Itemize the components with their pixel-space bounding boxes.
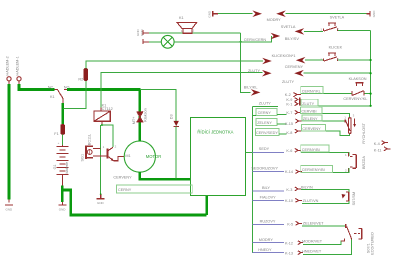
arrow out CERV/CERN	[271, 33, 281, 40]
switch S7 bracket	[358, 228, 361, 238]
pad P2	[17, 77, 21, 81]
svg-text:ZLUTY: ZLUTY	[248, 69, 260, 73]
arrow in MODRY	[276, 10, 286, 17]
svg-text:SG1: SG1	[81, 154, 85, 162]
svg-text:FIALOVY: FIALOVY	[260, 196, 277, 200]
label box CERV/BI	[301, 114, 350, 118]
svg-text:K-5: K-5	[287, 223, 293, 227]
battery bottom pin	[61, 177, 63, 186]
wire down to BILY/KL arrow	[241, 33, 251, 93]
emitter wire to motor	[113, 157, 124, 161]
pin bracket row1	[299, 98, 301, 106]
fuse F1	[61, 124, 65, 134]
row10 MODRY	[253, 242, 285, 244]
label box ZLUTY right	[301, 105, 371, 107]
svg-text:K-4: K-4	[374, 142, 380, 146]
svg-text:K1: K1	[179, 16, 184, 20]
svg-text:K-7: K-7	[286, 111, 292, 115]
svg-text:ZELENY: ZELENY	[303, 117, 318, 121]
svg-text:K-6: K-6	[286, 149, 292, 153]
gnd pin top right	[366, 11, 370, 16]
svg-text:ZLUTY: ZLUTY	[259, 102, 271, 106]
svg-text:S07/SM: S07/SM	[352, 192, 356, 206]
svg-text:CERV/CERN: CERV/CERN	[244, 38, 267, 42]
wire common to fuse F1	[61, 103, 64, 125]
buzzer SG1	[86, 145, 93, 158]
label box CERVENY right	[301, 131, 350, 136]
wire junction to transistor collector	[102, 125, 113, 147]
wire motor bottom to control unit	[140, 172, 191, 180]
svg-text:RUZOVY: RUZOVY	[260, 220, 276, 224]
gnd pin lamp	[143, 39, 149, 44]
pad P1 pin stub	[8, 81, 10, 84]
svg-text:CERV/BI: CERV/BI	[301, 109, 316, 113]
svg-text:CERNY/BI: CERNY/BI	[302, 148, 320, 152]
switch S7 lever	[347, 227, 352, 240]
svg-text:K-10: K-10	[285, 199, 293, 203]
svg-text:CERNY: CERNY	[258, 111, 272, 115]
svg-text:BILY/KL: BILY/KL	[244, 86, 258, 90]
switch S7 contact top	[345, 224, 347, 228]
label box CERNY bottom	[116, 185, 192, 193]
wire battery to ground	[61, 186, 64, 202]
wire lamp line	[149, 41, 162, 43]
junction relay-transistor	[101, 124, 103, 126]
control unit box	[190, 118, 245, 196]
svg-text:K-12: K-12	[285, 241, 293, 245]
svg-text:+: +	[58, 141, 60, 145]
arrow out BILY/KL	[251, 89, 261, 96]
wire SVETLA arrow to switch	[304, 30, 323, 32]
switch S4 RYCHLOST	[345, 118, 354, 134]
svg-text:BILY/SV: BILY/SV	[285, 37, 300, 41]
wire ZLUTY in to bus	[304, 72, 371, 74]
wire CERVENY arrow to KLICEK switch	[305, 59, 323, 61]
wire relay coil to ZLUTY net	[101, 73, 263, 108]
wire R2 top to KLICEK net	[86, 61, 263, 68]
svg-text:HADLEM-1: HADLEM-1	[16, 56, 20, 75]
switch S1 SVETLA	[323, 23, 337, 31]
switch S5 BRZDA	[348, 153, 356, 173]
svg-text:RYCHLOST: RYCHLOST	[362, 122, 366, 143]
wire thick to motor top	[139, 88, 142, 141]
svg-text:SEDY: SEDY	[259, 147, 270, 151]
svg-text:HNEDY: HNEDY	[258, 248, 272, 252]
svg-text:BILY: BILY	[262, 186, 270, 190]
row4 CERV/SEDY label box	[255, 128, 279, 135]
pin stub ground 3	[100, 194, 102, 198]
svg-text:D3: D3	[169, 114, 173, 119]
diode D3	[174, 121, 179, 126]
wire klicek switch to bus	[338, 59, 370, 61]
wire junction to ground GND3	[100, 125, 102, 194]
switch S2 KLICEK	[323, 53, 337, 61]
svg-text:CERV/SEDY: CERV/SEDY	[256, 131, 278, 135]
switch S6 PROUD	[342, 194, 346, 199]
svg-text:ECO/TURBO: ECO/TURBO	[371, 232, 375, 255]
svg-text:SEDORUZOVY: SEDORUZOVY	[251, 167, 278, 171]
wire battery branch to rail	[62, 190, 70, 215]
row3 ZELENY label box	[256, 118, 277, 125]
relay contact K1 NO stub	[64, 89, 67, 91]
svg-text:NC: NC	[48, 85, 54, 89]
svg-text:HNED/VET: HNED/VET	[302, 250, 322, 254]
svg-text:KLAKSON: KLAKSON	[349, 77, 367, 81]
relay coil bottom pin	[101, 121, 103, 125]
label box CERNY/BI	[301, 152, 349, 156]
svg-text:ZLUT/VN: ZLUT/VN	[303, 199, 319, 203]
relay contact K1 lever	[58, 90, 63, 98]
wire branch to diode D3	[140, 90, 176, 121]
svg-text:Klakson: Klakson	[144, 108, 148, 122]
svg-text:CERVENY/BI: CERVENY/BI	[302, 168, 325, 172]
relay contact K1 NC stub	[55, 89, 58, 91]
lamp H1	[161, 35, 174, 48]
ground GND3	[97, 198, 105, 200]
svg-text:CERVENY/KL: CERVENY/KL	[343, 97, 367, 101]
arrow out ZLUTY	[262, 70, 272, 77]
svg-text:R2: R2	[78, 77, 83, 81]
wire switch to right bus	[338, 29, 370, 31]
svg-text:MT+: MT+	[132, 116, 136, 124]
svg-text:ŘÍDÍCÍ JEDNOTKA: ŘÍDÍCÍ JEDNOTKA	[197, 129, 233, 134]
pin stub battery ground	[61, 202, 63, 205]
SG1 pins	[93, 147, 101, 149]
svg-text:MODRY: MODRY	[267, 18, 282, 22]
svg-text:K-3: K-3	[286, 188, 292, 192]
svg-text:KLICEK/ON*1: KLICEK/ON*1	[272, 54, 296, 58]
wire MODRY in to gnd pin right	[286, 13, 367, 15]
svg-text:M1: M1	[125, 154, 130, 158]
motor M1 circle	[124, 141, 155, 172]
svg-text:ZELENY: ZELENY	[257, 121, 272, 125]
pin stub to ground 1	[8, 200, 10, 203]
svg-text:SVETLA: SVETLA	[281, 25, 296, 29]
switch S7 contact mid	[341, 238, 344, 241]
svg-text:MOTOR: MOTOR	[146, 154, 162, 159]
svg-text:BRZDA: BRZDA	[362, 156, 366, 169]
spine vertical from control unit	[252, 107, 254, 253]
wire MODRY out	[218, 13, 253, 15]
pad P1	[7, 77, 11, 81]
svg-text:K-13: K-13	[285, 251, 293, 255]
fuse klakson on motor wire	[137, 111, 143, 116]
svg-text:MODRY: MODRY	[259, 238, 274, 242]
svg-text:CERVENY: CERVENY	[113, 176, 132, 180]
wire speaker line	[149, 32, 241, 34]
svg-text:SVETLA: SVETLA	[330, 15, 345, 19]
wire rail up to control unit	[205, 195, 208, 215]
svg-text:K-15: K-15	[285, 122, 293, 126]
pad P2 pin stub	[18, 81, 20, 84]
svg-text:HADLEM-2: HADLEM-2	[6, 56, 10, 75]
svg-text:KLICEK: KLICEK	[329, 45, 343, 49]
svg-text:F1: F1	[54, 132, 58, 136]
junction speaker lamp	[240, 41, 242, 43]
svg-text:ZELEN/VET: ZELEN/VET	[303, 222, 324, 226]
svg-text:CERNY/KL: CERNY/KL	[302, 90, 321, 94]
wire lamp to CERV/CERN	[174, 36, 272, 42]
ground GND battery	[58, 204, 66, 206]
svg-text:BC11L: BC11L	[88, 134, 92, 145]
svg-text:GND: GND	[372, 10, 376, 18]
svg-text:K-2: K-2	[285, 93, 291, 97]
label box CERVENY/BI	[301, 168, 349, 172]
wire R2 branch to battery line	[64, 91, 86, 109]
svg-text:K-11: K-11	[374, 148, 382, 152]
row8 FIALOVY	[253, 199, 285, 201]
svg-text:GND: GND	[97, 201, 105, 205]
arrow in ZLUTY	[294, 70, 304, 77]
relay contact common stub	[62, 98, 64, 103]
svg-text:K-14: K-14	[285, 170, 293, 174]
svg-text:K-8: K-8	[286, 131, 292, 135]
arrow in KLICEK row CERVENY	[296, 57, 306, 64]
wire klakson to bus	[364, 93, 370, 95]
svg-text:K1: K1	[50, 95, 55, 99]
gnd pin speaker	[143, 30, 149, 35]
ground GND left	[5, 204, 13, 206]
svg-text:MODR/VET: MODR/VET	[302, 240, 323, 244]
stub to resistor R2	[85, 81, 87, 90]
speaker K1	[177, 22, 197, 28]
wire pad2 to relay contact	[19, 84, 55, 90]
wire D3 to motor wire	[175, 126, 177, 179]
svg-text:K-9: K-9	[286, 98, 292, 102]
ground rail thick wire	[70, 214, 207, 217]
switch S7 common dashes	[354, 233, 360, 235]
arrow out MODRY	[252, 10, 262, 17]
wire F1 to battery	[62, 134, 64, 145]
arrow out KLICEK/ON*1	[262, 58, 272, 65]
switch S3 KLAKSON	[352, 83, 364, 96]
wire pad1 to ground	[8, 84, 11, 200]
relay coil K1 top pin	[100, 107, 102, 111]
svg-text:CERNY: CERNY	[118, 188, 132, 192]
row6 SEDORUZOVY	[253, 171, 285, 173]
row2 CERNY label box	[256, 108, 277, 115]
svg-text:baterie: baterie	[65, 162, 69, 174]
arrow in SVETLA	[295, 28, 305, 35]
svg-text:CERVENY: CERVENY	[302, 127, 321, 131]
svg-text:K-1: K-1	[286, 102, 292, 106]
row11 HNEDY	[253, 252, 285, 254]
resistor R2	[84, 68, 88, 80]
row7 BILY	[253, 190, 285, 192]
svg-text:CERVENY: CERVENY	[285, 65, 304, 69]
svg-text:CT112: CT112	[102, 107, 113, 111]
relay coil K1 CT112	[94, 111, 110, 121]
svg-text:ZLUTY: ZLUTY	[282, 80, 294, 84]
label box ZELENY right	[302, 120, 346, 122]
row5 SEDY wire from box	[246, 151, 253, 153]
svg-text:GND: GND	[59, 208, 67, 212]
svg-text:GND: GND	[6, 208, 14, 212]
battery G1 plates	[56, 145, 68, 177]
row9 RUZOVY	[253, 223, 285, 225]
label box CERNY/KL	[301, 93, 352, 95]
wire NO to motor branch (thick top rail)	[67, 88, 140, 91]
svg-text:G1: G1	[53, 164, 57, 169]
right bus vertical	[370, 30, 372, 105]
svg-text:GND: GND	[208, 10, 212, 18]
transistor Q1	[107, 147, 113, 160]
row1 ZLUTY stub	[253, 106, 279, 108]
svg-text:ZLUTY: ZLUTY	[302, 102, 314, 106]
